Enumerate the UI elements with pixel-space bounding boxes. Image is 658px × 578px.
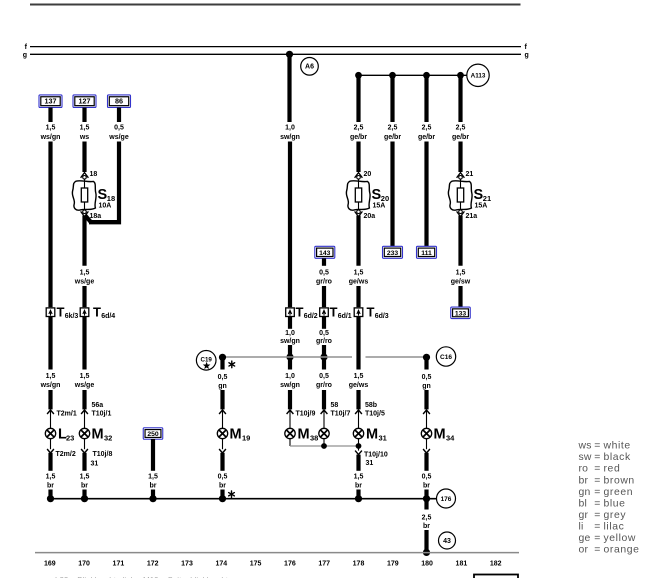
svg-text:T: T [296,305,304,320]
bottom rail [35,552,519,554]
svg-text:23: 23 [66,434,74,443]
junction dot track178 ground [355,495,362,502]
wire label 1,5 br track170 [80,474,90,490]
svg-text:176: 176 [284,560,296,567]
svg-text:1,0: 1,0 [285,125,295,132]
svg-text:1,5: 1,5 [354,270,364,277]
wire label 1,5 br t172 [148,474,158,490]
colour code legend [578,441,640,556]
svg-text:M: M [92,427,104,443]
svg-text:ge/br: ge/br [452,134,469,141]
wire to 133 [458,286,462,308]
connector arrow T10j/8 terminal 31 [81,449,112,467]
wire to ground rail track178 [356,490,360,500]
junction dot link track178 [356,443,362,449]
svg-text:ge/br: ge/br [350,134,367,141]
svg-text:gr/ro: gr/ro [316,382,332,389]
top border line [30,4,521,6]
wire label 1,5 ge/ws lower [349,373,369,389]
svg-text:T10j/7: T10j/7 [331,410,351,417]
junction dot track179 [389,72,396,79]
wire label 1,0 sw/gn mid [280,330,300,345]
svg-text:18a: 18a [90,213,102,220]
svg-text:176: 176 [441,496,452,503]
lead out of M34 [426,439,428,450]
track numbers 169-182 [44,560,502,567]
svg-text:orange: orange [604,545,640,556]
svg-text:=: = [594,545,600,556]
svg-text:1,0: 1,0 [285,373,295,380]
svg-text:169: 169 [44,560,56,567]
svg-text:21: 21 [466,171,474,178]
svg-text:M: M [366,427,378,443]
wire 127 upper stub [82,108,86,123]
wire below C19 line [288,357,292,370]
wire label 1,5 ws [79,125,90,142]
terminal box 127 [73,95,96,108]
svg-text:gn: gn [218,383,227,390]
fuse S21 15A [448,171,491,220]
svg-text:li: li [579,521,584,532]
svg-text:31: 31 [379,434,387,443]
footer page box [474,575,518,578]
wire below C19 line track177 [322,357,326,370]
node 43 [439,532,456,549]
svg-text:178: 178 [353,560,365,567]
svg-text:ro: ro [579,464,589,475]
svg-text:1,5: 1,5 [46,373,56,380]
wire 86 down and bend into S18 output [85,142,121,223]
connector arrow below M19 [219,449,226,453]
svg-text:sw/gn: sw/gn [280,338,300,345]
wire to ground rail track170 [82,490,86,500]
wire to ground rail [48,490,52,500]
svg-text:10A: 10A [99,202,112,209]
svg-text:=: = [594,487,600,498]
wire A6 to T6d/2 [288,142,292,308]
svg-text:g: g [525,52,529,59]
svg-text:6d/3: 6d/3 [375,313,389,320]
svg-text:133: 133 [455,310,467,317]
wire to M19 [220,390,224,409]
lead into M38 left [289,411,291,429]
wire down to 233 [390,142,394,247]
svg-text:15A: 15A [475,202,488,209]
junction dot C19 stub [219,354,226,361]
svg-text:=: = [594,452,600,463]
svg-text:1,5: 1,5 [354,474,364,481]
wire bus to 233 [390,76,394,122]
wire M32 down [82,453,86,471]
svg-text:6d/4: 6d/4 [101,313,115,320]
svg-text:sw/gn: sw/gn [280,382,300,389]
svg-text:6k/3: 6k/3 [65,313,79,320]
terminal box 250 [143,428,163,440]
wire bus to S20 [356,76,360,122]
wire M34 down [424,453,428,471]
svg-text:=: = [594,533,600,544]
svg-text:=: = [594,475,600,486]
svg-text:6d/1: 6d/1 [338,313,352,320]
ground rail 31 [48,498,437,500]
svg-text:58b: 58b [365,402,377,409]
lead out of M32 [84,439,86,450]
lead M38 right to link [323,439,325,446]
junction dot bottom rail [423,549,430,556]
junction dot track169 ground [47,495,54,502]
junction dot C16 stub [423,354,430,361]
wire L23 down [48,453,52,471]
svg-text:6d/2: 6d/2 [304,313,318,320]
wire to M38 left [288,390,292,409]
svg-text:ws/ge: ws/ge [74,382,95,389]
connector T6k/3 [46,305,78,320]
svg-text:31: 31 [91,460,99,467]
wire label 1,0 sw/gn lower [280,373,300,389]
svg-text:br: br [150,483,157,490]
svg-text:111: 111 [421,250,432,257]
svg-text:86: 86 [115,97,123,106]
connector T6d/4 [80,305,115,320]
svg-text:red: red [604,464,621,475]
wire down to 111 [424,142,428,247]
svg-text:br: br [423,483,430,490]
svg-text:gr/ro: gr/ro [316,338,332,345]
svg-text:M: M [434,427,446,443]
svg-text:green: green [604,487,634,498]
svg-text:ws/gn: ws/gn [40,134,61,141]
svg-text:ws: ws [79,134,89,141]
wire label 1,0 sw/gn [280,125,300,142]
terminal box 143 [315,246,335,258]
interconnect line C16 side [366,356,426,358]
svg-text:0,5: 0,5 [319,373,329,380]
svg-text:1,5: 1,5 [456,270,466,277]
svg-text:ws/ge: ws/ge [74,279,95,286]
wire label 0,5 gr/ro lower [316,373,332,389]
wire into bottom rail [424,530,428,553]
svg-text:180: 180 [421,560,433,567]
svg-text:181: 181 [456,560,468,567]
terminal box 233 [383,246,403,258]
lead into M19 [222,411,224,429]
wire label 1,5 ws/ge lower [74,373,95,389]
wire label 1,5 br track178 [354,474,364,490]
svg-text:A113: A113 [471,73,486,80]
wire 143 stub [322,258,326,266]
svg-text:C16: C16 [440,354,452,361]
svg-text:or: or [579,545,589,556]
svg-text:1,5: 1,5 [354,373,364,380]
svg-text:gn: gn [422,383,431,390]
asterisk at C19 stub [229,361,235,368]
wire 143 to T6d/1 [322,286,326,307]
wire label 2,5 ge/br t180 [418,125,435,142]
wire to L23 [48,390,52,409]
svg-text:173: 173 [181,560,193,567]
wire to M34 [424,390,428,409]
wire T6d/1 down [322,317,326,329]
connector arrow 58b T10j/5 [355,402,385,417]
svg-text:sw: sw [579,452,592,463]
svg-text:2,5: 2,5 [422,515,432,522]
wire T6d/3 down crossing C19 line [356,317,360,370]
svg-text:2,5: 2,5 [456,125,466,132]
lead into M38 right [323,411,325,429]
svg-text:br: br [579,475,589,486]
lead into M32 [84,411,86,429]
connector arrow T2m/1 [47,410,77,417]
svg-text:182: 182 [490,560,502,567]
wire C16 stub down [424,357,428,370]
wire into C19 line [288,345,292,357]
wire T6d/2 down [288,317,292,329]
svg-text:1,5: 1,5 [80,373,90,380]
lamp M31 [353,427,387,443]
wire to ground rail t172 [151,490,155,500]
wire 250 down [151,439,155,471]
wire S20 output [356,216,360,266]
svg-text:br: br [81,483,88,490]
node C16 [436,347,455,366]
wire S18 output [82,216,86,266]
wire to M38 right [322,390,326,409]
wire 137 to T6k/3 [48,142,52,308]
svg-text:1,0: 1,0 [285,330,295,337]
svg-text:br: br [423,523,430,530]
wire label 1,5 ws/gn lower [40,373,61,389]
svg-text:T2m/2: T2m/2 [56,451,76,458]
svg-text:sw/gn: sw/gn [280,134,300,141]
svg-text:0,5: 0,5 [218,474,228,481]
svg-text:ws/ge: ws/ge [108,134,129,141]
svg-text:31: 31 [366,460,374,467]
svg-text:black: black [604,452,631,463]
svg-text:179: 179 [387,560,399,567]
connector arrow T10j/9 [287,410,316,417]
node A113 label [467,64,489,86]
wire label 0,5 ws/ge [108,125,129,142]
wire label 1,5 ge/ws [349,270,369,286]
svg-text:T: T [93,305,101,320]
svg-text:1,5: 1,5 [80,125,90,132]
svg-text:34: 34 [446,434,455,443]
junction dot track181 [457,72,464,79]
fuse S18 10A [72,171,115,220]
wire to fuse S20 [356,142,360,173]
wire to ground rail t180 [424,490,428,500]
lead into M34 [426,411,428,429]
wire label 0,5 br t174 [218,474,228,490]
svg-text:15A: 15A [373,202,386,209]
wire 86 upper stub [117,108,121,123]
wire into C19 line track177 [322,345,326,357]
lead into M31 [358,411,360,429]
lamp M19 [217,427,250,443]
wire C19 stub down [220,357,224,370]
wire 127 to fuse S18 [82,142,86,173]
svg-text:1,5: 1,5 [46,125,56,132]
wire label 0,5 br t180 [422,474,432,490]
footer caption fragment [55,576,233,578]
svg-text:T: T [57,305,65,320]
ge/br distribution bus [359,74,467,76]
svg-text:20a: 20a [364,213,376,220]
lead out of M19 [222,439,224,450]
wire bus to S21 [458,76,462,122]
svg-text:19: 19 [242,434,250,443]
svg-text:yellow: yellow [604,533,636,544]
svg-text:ge/ws: ge/ws [349,382,369,389]
junction dot C19 line track177 [320,353,327,360]
wire to M31 [356,390,360,409]
junction dot link track177 [321,443,327,449]
wire label 2,5 ge/br t178 [350,125,367,142]
connector arrow T10j/10 terminal 31 [355,446,388,467]
svg-text:38: 38 [310,434,318,443]
svg-text:M: M [298,427,310,443]
svg-text:ge/br: ge/br [384,134,401,141]
svg-text:lilac: lilac [604,521,625,532]
svg-text:2,5: 2,5 [422,125,432,132]
svg-text:T10j/8: T10j/8 [93,451,113,458]
svg-text:0,5: 0,5 [114,125,124,132]
junction dot C19 line track176 [286,353,293,360]
wire label 1,5 ge/sw [451,270,471,286]
wire S21 output [458,216,462,266]
svg-text:170: 170 [78,560,90,567]
svg-text:=: = [594,498,600,509]
svg-text:grey: grey [604,510,627,521]
node A6 junction on rail g [286,51,293,58]
svg-text:ge/sw: ge/sw [451,279,471,286]
svg-text:brown: brown [604,475,635,486]
svg-text:233: 233 [387,250,399,257]
svg-text:ws: ws [578,441,592,452]
svg-text:177: 177 [318,560,330,567]
lamp M34 [421,427,455,443]
asterisk at track174 ground [229,491,235,498]
svg-text:ge/br: ge/br [418,134,435,141]
ground link line under M38 [290,445,359,447]
svg-text:175: 175 [250,560,262,567]
junction dot track170 ground [81,495,88,502]
svg-text:58: 58 [331,402,339,409]
svg-text:18: 18 [90,171,98,178]
svg-text:0,5: 0,5 [422,474,432,481]
connector arrow 58 T10j/7 [321,402,351,417]
svg-text:T10j/5: T10j/5 [365,410,385,417]
svg-text:1,5: 1,5 [80,270,90,277]
svg-text:=: = [594,510,600,521]
svg-text:T: T [367,305,375,320]
wire label 1,5 ws/ge [74,270,95,286]
svg-text:127: 127 [79,97,91,106]
wire M19 down [220,453,224,471]
svg-text:gn: gn [579,487,591,498]
wire label 2,5 ge/br t179 [384,125,401,142]
wire to ground rail t174 [220,490,224,500]
svg-text:A6: A6 [305,64,314,71]
svg-text:blue: blue [604,498,626,509]
wire M31 down [356,455,360,471]
svg-text:0,5: 0,5 [422,374,432,381]
svg-text:174: 174 [215,560,227,567]
lead M31 to link dot [358,439,360,446]
svg-text:br: br [355,483,362,490]
connector T6d/3 [354,305,389,320]
terminal box 86 [108,95,131,108]
svg-text:250: 250 [147,431,159,438]
connector arrow above M34 [423,410,430,414]
connector arrow below M34 [423,449,430,453]
node A6 label [301,58,319,76]
wire ground to bottom rail [424,499,428,510]
wire to M32 [82,390,86,409]
lamp M32 [79,427,112,443]
fuse S20 15A [346,171,389,220]
svg-text:1,5: 1,5 [46,474,56,481]
wire bus to 111 [424,76,428,122]
junction dot track174 ground [219,495,226,502]
svg-text:white: white [603,441,631,452]
svg-text:T10j/1: T10j/1 [92,410,112,417]
wire label 0,5 gr/ro [316,270,332,286]
junction dot track180 [423,72,430,79]
svg-text:1,5: 1,5 [80,474,90,481]
wire label 1,5 ws/gn [40,125,61,142]
terminal box 133 [451,307,471,319]
svg-text:ge: ge [579,533,591,544]
svg-text:56a: 56a [92,402,104,409]
connector T6d/2 [286,305,318,320]
svg-text:137: 137 [45,97,57,106]
wire from rail g at A6 [287,54,291,122]
svg-text:43: 43 [443,538,451,545]
connector arrow T2m/2 [47,449,76,458]
svg-text:gr: gr [579,510,589,521]
svg-text:T: T [330,305,338,320]
svg-text:br: br [47,483,54,490]
svg-text:20: 20 [364,171,372,178]
svg-text:0,5: 0,5 [319,330,329,337]
svg-text:T10j/9: T10j/9 [296,410,316,417]
svg-text:g: g [23,52,27,59]
lead M38 left to link [289,439,291,446]
wire to fuse S21 [458,142,462,173]
wire to T6d/4 [82,286,86,307]
svg-text:=: = [594,521,600,532]
svg-text:0,5: 0,5 [218,374,228,381]
wire label 2,5 ge/br t181 [452,125,469,142]
wire 137 upper stub [48,108,52,123]
svg-text:171: 171 [113,560,125,567]
node 176 [437,489,456,508]
label M38 [298,427,319,443]
wire label 0,5 gn t180 [422,374,432,390]
svg-text:br: br [219,483,226,490]
bus rail g [23,52,529,59]
terminal box 111 [417,246,437,258]
connector T6d/1 [320,305,352,320]
svg-text:32: 32 [104,434,112,443]
svg-text:bl: bl [579,498,588,509]
bus rail f [25,44,528,51]
svg-text:M: M [230,427,242,443]
lamp M38 left [285,428,295,438]
svg-text:ge/ws: ge/ws [349,279,369,286]
junction dot track180 ground [423,495,430,502]
